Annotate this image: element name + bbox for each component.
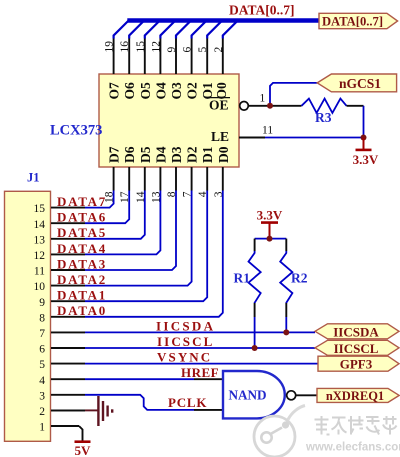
- port tag IICSCL: [315, 340, 399, 356]
- svg-text:nGCS1: nGCS1: [339, 76, 381, 91]
- net label DATA5: [57, 225, 107, 240]
- svg-text:DATA1: DATA1: [57, 288, 107, 303]
- watermark logo: [254, 406, 305, 457]
- svg-text:8: 8: [39, 312, 45, 324]
- svg-text:R3: R3: [315, 110, 332, 125]
- svg-text:DATA2: DATA2: [57, 272, 107, 287]
- svg-text:O3: O3: [169, 82, 184, 100]
- net label DATA6: [57, 210, 107, 225]
- svg-text:DATA7: DATA7: [57, 194, 107, 209]
- svg-text:NAND: NAND: [228, 388, 266, 403]
- bus entry for pin 5: [207, 21, 222, 39]
- junction R1/IICSCL: [252, 345, 258, 351]
- wire DATA0: [85, 191, 223, 317]
- svg-text:D2: D2: [185, 146, 200, 163]
- svg-text:1: 1: [39, 422, 45, 434]
- svg-text:12: 12: [34, 250, 46, 262]
- pin number 4: [197, 191, 209, 197]
- IC designator label LCX373: [50, 123, 102, 139]
- pin number 15: [135, 41, 147, 53]
- wire IICSCL: [85, 347, 315, 349]
- resistor R1: [249, 239, 261, 317]
- wire IICSDA: [85, 331, 315, 333]
- svg-text:IICSDA: IICSDA: [156, 318, 215, 333]
- port tag DATA[0..7]: [319, 13, 398, 28]
- power symbol 3.3V upper: [257, 208, 283, 239]
- svg-text:3: 3: [39, 390, 45, 402]
- wire DATA1: [85, 191, 207, 302]
- IC pin name OE with overline: [209, 98, 230, 113]
- J1 pin 6 stub: [51, 347, 85, 349]
- pin number 11: [262, 125, 273, 137]
- R2 designator: [291, 271, 308, 286]
- svg-text:IICSCL: IICSCL: [157, 334, 214, 349]
- net label HREF: [181, 365, 219, 380]
- svg-text:10: 10: [34, 281, 46, 293]
- NAND gate U2: [223, 371, 285, 418]
- watermark url text: [305, 442, 400, 454]
- svg-text:O5: O5: [138, 82, 153, 100]
- wire HREF: [85, 378, 223, 380]
- wire NAND output: [296, 394, 317, 396]
- svg-text:GPF3: GPF3: [340, 357, 373, 372]
- J1 pin number 2: [39, 406, 45, 418]
- svg-text:5V: 5V: [75, 443, 92, 457]
- J1 pin number 5: [39, 359, 45, 371]
- bus entry for pin 2: [223, 21, 238, 39]
- svg-text:6: 6: [182, 47, 194, 53]
- svg-text:14: 14: [34, 219, 46, 231]
- J1 pin number 8: [39, 312, 45, 324]
- IC pin name O0: [214, 82, 229, 100]
- connector J1 body: [5, 191, 51, 441]
- J1 pin number 13: [34, 234, 46, 246]
- pin number 1: [260, 93, 266, 105]
- J1 pin 12 stub: [51, 253, 85, 255]
- J1 pin 13 stub: [51, 238, 85, 240]
- wire PCLK: [85, 395, 223, 410]
- svg-text:11: 11: [262, 125, 273, 137]
- R3 designator: [315, 110, 332, 125]
- pin number 13: [150, 191, 162, 203]
- pin number 3: [213, 191, 225, 197]
- svg-text:D4: D4: [153, 146, 168, 163]
- port tag IICSDA: [315, 324, 399, 340]
- power symbol 3.3V lower: [353, 138, 379, 168]
- R1 designator: [234, 271, 251, 286]
- pin number 14: [135, 191, 147, 203]
- J1 pin 5 stub: [51, 363, 85, 365]
- port tag nXDREQ1: [317, 388, 399, 403]
- J1 pin number 1: [39, 422, 45, 434]
- J1 pin number 4: [39, 375, 45, 387]
- wire DATA3: [85, 191, 176, 271]
- pin number 2: [213, 47, 225, 53]
- svg-text:PCLK: PCLK: [168, 395, 207, 410]
- J1 pin 14 stub: [51, 222, 85, 224]
- pin number 18: [104, 191, 116, 203]
- svg-text:O6: O6: [122, 82, 137, 100]
- junction at 3.3V: [267, 236, 273, 242]
- svg-text:3.3V: 3.3V: [353, 152, 379, 167]
- IC pin name O5: [138, 82, 153, 100]
- svg-text:J1: J1: [27, 171, 40, 185]
- IC bottom pin 18 stub: [113, 167, 115, 191]
- svg-text:1: 1: [260, 93, 266, 105]
- svg-text:DATA[0..7]: DATA[0..7]: [229, 2, 295, 17]
- net label DATA3: [57, 256, 107, 271]
- J1 pin 8 stub: [51, 316, 85, 318]
- bus entry for pin 15: [145, 21, 160, 39]
- IC pin name D6: [122, 146, 137, 163]
- pin number 17: [119, 191, 131, 203]
- J1 pin 1 stub: [51, 425, 79, 427]
- resistor R3: [302, 99, 347, 113]
- IC top pin 2 stub: [222, 39, 224, 75]
- svg-text:LE: LE: [211, 129, 229, 144]
- pin number 6: [182, 47, 194, 53]
- net label IICSDA: [156, 318, 215, 333]
- J1 pin 2 stub: [51, 409, 85, 411]
- IC pin name D1: [200, 146, 215, 163]
- svg-text:15: 15: [34, 203, 46, 215]
- net label IICSCL: [157, 334, 214, 349]
- svg-text:6: 6: [39, 344, 45, 356]
- svg-text:DATA0: DATA0: [57, 303, 107, 318]
- svg-text:IICSCL: IICSCL: [334, 341, 379, 356]
- IC pin name D0: [216, 146, 231, 163]
- svg-text:DATA4: DATA4: [57, 241, 107, 256]
- svg-text:R2: R2: [291, 271, 308, 286]
- svg-text:DATA[0..7]: DATA[0..7]: [322, 14, 383, 28]
- svg-text:D0: D0: [216, 146, 231, 163]
- IC bottom pin 4 stub: [206, 167, 208, 191]
- IC pin name D2: [185, 146, 200, 163]
- pin number 5: [197, 47, 209, 53]
- net label DATA1: [57, 288, 107, 303]
- J1 pin number 7: [39, 328, 45, 340]
- svg-text:nXDREQ1: nXDREQ1: [326, 389, 384, 403]
- IC bottom pin 7 stub: [191, 167, 193, 191]
- IC pin name LE: [211, 129, 229, 144]
- pin number 16: [119, 41, 131, 53]
- bus entry for pin 19: [114, 21, 129, 39]
- J1 pin number 12: [34, 250, 46, 262]
- wire R1 top to R2 top: [255, 238, 287, 240]
- svg-text:O7: O7: [107, 82, 122, 100]
- wire to ground: [85, 409, 98, 411]
- svg-text:D3: D3: [169, 146, 184, 163]
- J1 pin number 10: [34, 281, 46, 293]
- J1 pin 4 stub: [51, 378, 85, 380]
- IC bottom pin 13 stub: [159, 167, 161, 191]
- IC bottom pin 14 stub: [144, 167, 146, 191]
- J1 pin number 14: [34, 219, 46, 231]
- svg-text:D5: D5: [138, 146, 153, 163]
- IC top pin 15 stub: [144, 39, 146, 75]
- port tag nGCS1: [317, 74, 396, 92]
- IC top pin 9 stub: [175, 39, 177, 75]
- IC pin name D7: [107, 146, 122, 163]
- svg-text:D6: D6: [122, 146, 137, 163]
- net label DATA7: [57, 194, 107, 209]
- wire R3 right to LE junction: [347, 106, 364, 138]
- IC bottom pin 3 stub: [222, 167, 224, 191]
- J1 pin 3 stub: [51, 394, 85, 396]
- ground symbol: [98, 396, 112, 426]
- svg-text:O2: O2: [185, 82, 200, 100]
- IC top pin 19 stub: [113, 39, 115, 75]
- svg-text:15: 15: [135, 41, 147, 53]
- svg-text:2: 2: [213, 47, 225, 53]
- svg-text:2: 2: [39, 406, 45, 418]
- J1 pin number 15: [34, 203, 46, 215]
- IC top pin 6 stub: [191, 39, 193, 75]
- IC pin name O2: [185, 82, 200, 100]
- wire VSYNC: [85, 363, 318, 365]
- J1 pin number 6: [39, 344, 45, 356]
- wire R2 bottom to IICSDA: [285, 317, 287, 332]
- IC pin name D4: [153, 146, 168, 163]
- svg-text:9: 9: [166, 47, 178, 53]
- J1 pin 9 stub: [51, 300, 85, 302]
- bus entry for pin 12: [160, 21, 175, 39]
- bus entry for pin 9: [176, 21, 191, 39]
- svg-text:LCX373: LCX373: [50, 123, 102, 139]
- power symbol 5V: [75, 442, 92, 457]
- wire to nGCS1 tag: [270, 83, 317, 106]
- IC top pin 12 stub: [159, 39, 161, 75]
- IC pin name O6: [122, 82, 137, 100]
- pin number 8: [166, 191, 178, 197]
- svg-text:7: 7: [39, 328, 45, 340]
- IC bottom pin 17 stub: [128, 167, 130, 191]
- IC pin name O1: [200, 82, 215, 100]
- port tag GPF3: [318, 356, 399, 372]
- net label DATA4: [57, 241, 107, 256]
- op IC U1 LCX373 body: [99, 74, 239, 167]
- IC pin name D3: [169, 146, 184, 163]
- svg-text:9: 9: [39, 297, 45, 309]
- wire R1 bottom to IICSCL: [254, 317, 256, 348]
- svg-text:16: 16: [119, 41, 131, 53]
- NAND output bubble: [287, 391, 296, 400]
- wire LE: [239, 137, 364, 139]
- IC pin name O7: [107, 82, 122, 100]
- svg-text:O4: O4: [153, 82, 168, 100]
- J1 pin 7 stub: [51, 331, 85, 333]
- net label VSYNC: [157, 350, 212, 365]
- connector designator J1: [27, 171, 40, 185]
- J1 pin number 9: [39, 297, 45, 309]
- IC bottom pin 8 stub: [175, 167, 177, 191]
- svg-text:HREF: HREF: [181, 365, 219, 380]
- IC pin name D5: [138, 146, 153, 163]
- IC pin name O4: [153, 82, 168, 100]
- resistor R2: [280, 239, 292, 317]
- IC top pin 5 stub: [206, 39, 208, 75]
- J1 pin number 11: [34, 266, 45, 278]
- IC pin name O3: [169, 82, 184, 100]
- bus entry for pin 16: [129, 21, 144, 39]
- net label PCLK: [168, 395, 207, 410]
- svg-text:DATA5: DATA5: [57, 225, 107, 240]
- pin number 19: [104, 41, 116, 53]
- svg-text:R1: R1: [234, 271, 251, 286]
- svg-text:3.3V: 3.3V: [257, 208, 283, 223]
- bus DATA[0..7] horizontal: [127, 18, 319, 23]
- wire DATA6: [85, 191, 129, 224]
- junction R2/IICSDA: [283, 329, 289, 335]
- wire DATA4: [85, 191, 160, 255]
- wire to 5V: [79, 426, 83, 441]
- svg-text:19: 19: [104, 41, 116, 53]
- svg-text:13: 13: [34, 234, 46, 246]
- wire DATA7: [85, 191, 114, 208]
- svg-text:11: 11: [34, 266, 45, 278]
- IC top pin 16 stub: [128, 39, 130, 75]
- svg-text:www.elecfans.com: www.elecfans.com: [305, 442, 400, 454]
- svg-text:IICSDA: IICSDA: [333, 324, 379, 339]
- svg-text:12: 12: [150, 41, 162, 53]
- svg-text:4: 4: [39, 375, 45, 387]
- net label DATA2: [57, 272, 107, 287]
- svg-text:VSYNC: VSYNC: [157, 350, 212, 365]
- junction at OE: [267, 103, 273, 109]
- wire DATA2: [85, 191, 192, 286]
- wire DATA5: [85, 191, 145, 239]
- bus net label DATA[0..7]: [229, 2, 295, 17]
- svg-text:5: 5: [197, 47, 209, 53]
- svg-text:OE: OE: [209, 98, 229, 113]
- wire OE to R3: [248, 105, 301, 107]
- svg-text:D1: D1: [200, 146, 215, 163]
- pin number 7: [182, 191, 194, 197]
- J1 pin 2 stub: [51, 409, 85, 411]
- svg-text:DATA3: DATA3: [57, 256, 107, 271]
- J1 pin 11 stub: [51, 269, 85, 271]
- svg-text:5: 5: [39, 359, 45, 371]
- OE inverter bubble: [240, 102, 249, 111]
- junction at LE: [361, 135, 367, 141]
- J1 pin number 3: [39, 390, 45, 402]
- svg-text:DATA6: DATA6: [57, 210, 107, 225]
- J1 pin 15 stub: [51, 207, 85, 209]
- pin number 12: [150, 41, 162, 53]
- pin number 9: [166, 47, 178, 53]
- J1 pin 10 stub: [51, 285, 85, 287]
- bus entry for pin 6: [192, 21, 207, 39]
- net label DATA0: [57, 303, 107, 318]
- watermark CJK text: [315, 416, 397, 435]
- svg-text:D7: D7: [107, 146, 122, 163]
